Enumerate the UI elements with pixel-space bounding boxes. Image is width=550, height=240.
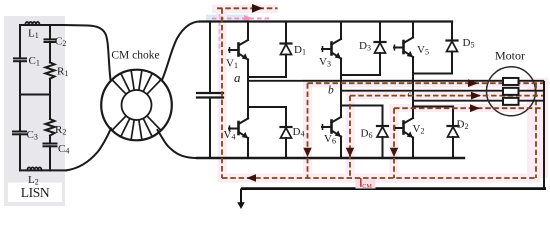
CM path highlight band left vertical [218,5,227,182]
wire node a vertical to lower link [247,81,249,107]
wire choke to inverter top bus [162,22,200,81]
ground plane line [241,187,546,190]
LISN label box [8,183,62,203]
diode D2 [448,107,459,159]
pink dashed echo left vertical [219,14,221,52]
CM arrow phase b right-pointing [471,92,481,100]
CM path highlight band bottom [218,174,541,183]
CM choke winding spokes top [112,70,161,94]
pink arrow echo [244,15,253,22]
wire C2 to R1 [49,42,51,62]
wire node b vertical to lower link [340,91,342,106]
transistor V1 [229,22,248,60]
inductor L1 [25,22,39,25]
CM arrow drop 2 down [346,148,354,157]
resistor R2 [46,119,55,136]
wire phase a to motor [248,80,503,82]
capacitor C4 [44,144,57,147]
diode D6 [377,106,388,159]
CM dashed drop 2 [349,96,351,178]
wire V6 emitter to DC- bus [340,137,342,159]
wire R1 to mid rail [49,79,51,95]
wire V5 emitter to node c [412,57,414,101]
CM dashed phase b path [350,95,543,97]
diode D5 [447,22,458,74]
ground arrow [237,202,245,209]
CM dashed bottom [222,177,536,179]
transistor V5 [394,22,413,58]
CM path highlight band phase b [346,92,548,100]
CM path highlight band phase c [390,104,548,112]
CM path highlight band below top (pale blue) [206,15,248,23]
diode D1 [281,22,292,78]
wire motor frame to ground [543,81,545,189]
transistor V3 [322,22,341,59]
CM dashed phase a path [308,82,544,84]
transistor V2 [394,107,413,138]
diode D3 [375,22,386,76]
CM path highlight band drop 1 [303,83,312,178]
CM arrow top right-pointing [252,4,263,13]
wire V3-D3 link [341,74,380,76]
wire mid rail to R2 [49,95,51,120]
CM choke core inner [122,90,152,120]
wire V1-D1 link [248,76,286,78]
wire V2 emitter to DC- bus [412,138,414,159]
svg-text:CM: CM [362,183,372,190]
pink dashed echo top [212,18,270,20]
motor winding b [503,88,519,95]
CM path highlight band phase a [303,79,547,88]
svg-text:LISN: LISN [21,185,50,200]
label ICM [360,178,362,187]
wire V2-D2 link [413,106,453,108]
wire DC-link cap bottom [209,98,211,159]
wire phase b to motor [341,90,503,92]
transistor V4 [229,107,248,138]
CM dashed left vertical [221,8,223,178]
CM dashed right vertical [535,83,537,178]
wire LISN top rail [20,24,63,26]
CM choke winding spokes bottom [112,116,161,140]
wire LISN right branch top [49,25,51,39]
wire DC+ bus [200,20,452,22]
capacitor DC-link [197,93,223,98]
wire LISN mid rail [20,94,50,96]
capacitor C2 [45,39,56,42]
wire V4-D4 link [248,106,286,108]
wire LISN left branch lower [19,134,21,170]
wire LISN bottom rail [20,169,66,171]
wire V1 emitter to node a [247,60,249,81]
CM dashed top segment [217,7,278,9]
diode D4 [281,107,292,158]
wire V6-D6 link [341,105,383,107]
inductor L2 [27,167,41,170]
resistor R1 [46,62,55,78]
svg-text:Motor: Motor [495,49,525,63]
capacitor C1 [14,58,26,61]
wire DC- bus [197,157,464,159]
CM path highlight band top segment (pink) [212,5,278,14]
svg-text:a: a [234,70,241,85]
wire C4 to bottom rail [49,146,51,170]
svg-text:CM choke: CM choke [111,50,159,62]
CM path highlight band drop 2 [346,95,355,178]
CM path highlight band right [527,78,548,178]
CM arrow drop 1 down [303,148,311,157]
CM dashed phase c path [394,107,543,109]
CM arrow drop 3 down [390,148,398,157]
wire choke to inverter bottom bus [158,130,198,158]
CM dashed drop 1 [307,83,309,178]
CM choke core outer [101,70,172,141]
transistor V6 [322,106,341,137]
wire LISN left branch middle [19,61,21,131]
CM arrow phase a right-pointing [468,79,478,87]
motor winding c [503,98,519,105]
LISN enclosure [4,16,65,206]
wire R2 to C4 [49,136,51,144]
svg-text:b: b [328,85,334,97]
wire V3 emitter to node b [340,59,342,91]
wire winding b to frame [519,90,545,92]
CM arrow phase c right-pointing [470,104,480,112]
label ICM highlight [356,179,376,188]
motor housing circle [487,67,536,116]
wire DC-link cap top [209,22,211,94]
CM dashed drop 3 [393,108,395,178]
svg-text:c: c [408,89,412,99]
wire phase c to motor [413,100,503,102]
wire LISN top to choke [63,25,111,80]
wire V5-D5 link [413,73,452,75]
CM path highlight band drop 3 [390,108,399,178]
wire LISN bottom to choke [66,128,111,170]
wire V4 emitter to DC- bus [247,138,249,158]
motor winding a [503,78,519,85]
wire winding a to frame [519,80,545,82]
capacitor C3 [13,132,26,135]
CM arrow bottom left-pointing [247,174,257,182]
wire LISN left branch upper [19,25,21,58]
wire winding c to frame [519,100,545,102]
ground drop wire [240,189,242,203]
wire node c vertical to lower link [412,101,414,107]
